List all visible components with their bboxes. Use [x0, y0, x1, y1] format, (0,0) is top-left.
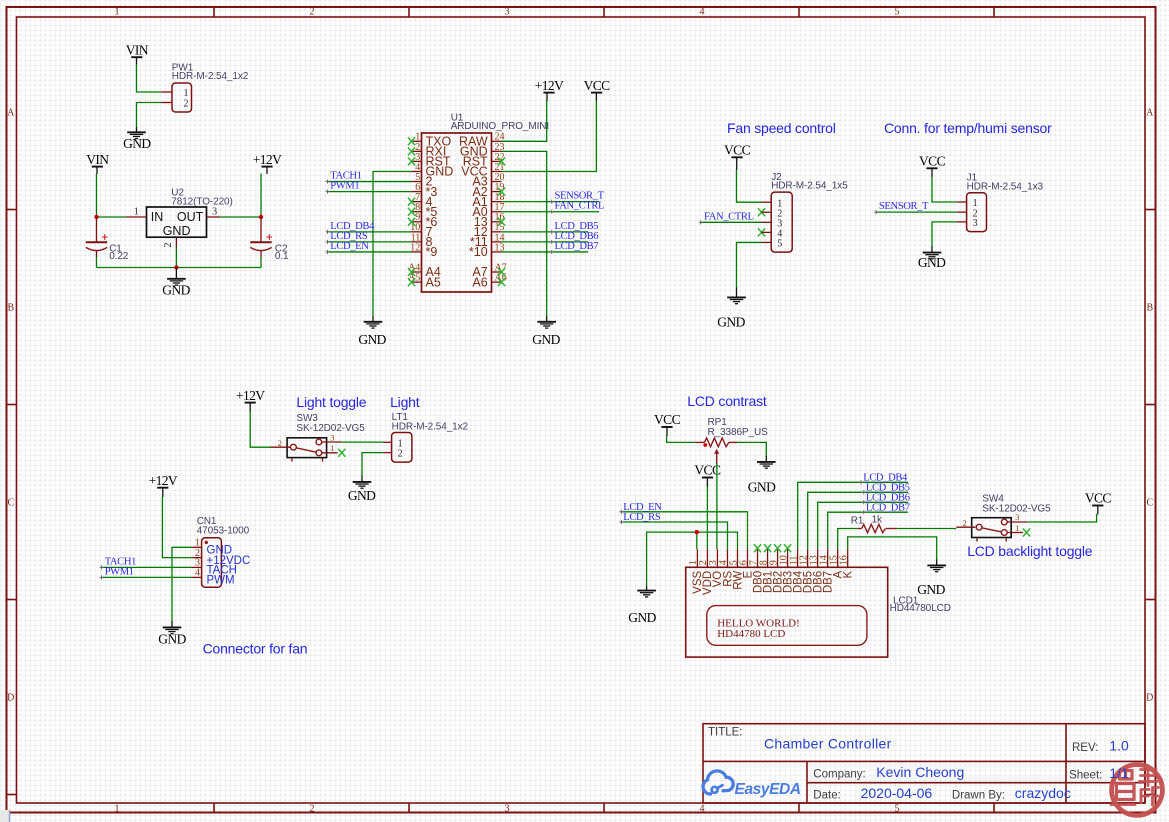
wire node A to U2 IN [97, 216, 127, 218]
wire VIN to node A [96, 167, 98, 174]
svg-text:4: 4 [700, 803, 705, 814]
svg-text:GND: GND [628, 610, 656, 625]
no-connect flags J2 pins 2 and 4 [758, 208, 765, 236]
svg-text:A5: A5 [426, 275, 441, 289]
svg-text:2: 2 [310, 803, 315, 814]
svg-text:SENSOR_T: SENSOR_T [879, 201, 929, 212]
no-connect flag SW3 pin 1 [338, 449, 345, 457]
svg-text:GND: GND [162, 283, 190, 298]
wire +12V to CN1 pin 2 [162, 488, 164, 497]
connector J2 [762, 172, 849, 252]
wire U1 GND4 to GND [373, 171, 412, 317]
wire net LCD_RS (U1) [328, 241, 412, 243]
svg-text:2: 2 [963, 518, 967, 528]
svg-text:Drawn By:: Drawn By: [952, 789, 1005, 801]
connector LT1 [383, 412, 468, 462]
power flag VIN (PW1) [126, 42, 149, 57]
mcu U1 ARDUINO_PRO_MINI [408, 112, 549, 292]
frame column labels top [115, 6, 900, 17]
svg-text:GND: GND [348, 488, 376, 503]
svg-text:GND: GND [123, 136, 151, 151]
svg-text:1.0: 1.0 [1109, 737, 1129, 753]
power flag VCC (U1 VCC) [584, 78, 611, 93]
power flag +12V (U2) [253, 152, 282, 167]
title block frame [703, 724, 1145, 803]
wire net LCD_DB7 (LCD) [828, 512, 908, 549]
svg-text:GND: GND [917, 582, 945, 597]
svg-text:3: 3 [505, 803, 510, 814]
frame row labels left [7, 108, 15, 704]
svg-text:Connector for fan: Connector for fan [203, 640, 308, 656]
power flag VCC (RP1) [654, 412, 681, 427]
wire R1 to SW4 pin 2 [897, 528, 957, 530]
power flag VCC (J2) [724, 143, 751, 158]
ground (RP1) [748, 462, 776, 495]
wire U2 OUT to node B [220, 216, 261, 218]
wire net LCD_DB6 (U1) [502, 241, 589, 243]
svg-text:PWM: PWM [207, 575, 235, 587]
svg-text:SK-12D02-VG5: SK-12D02-VG5 [982, 503, 1051, 514]
power flag VIN (U2) [86, 152, 109, 167]
ground (LT1) [348, 482, 376, 503]
wire +12V to node B [266, 167, 268, 174]
svg-text:R1: R1 [851, 516, 864, 527]
svg-text:2: 2 [163, 243, 174, 248]
svg-text:A: A [1146, 108, 1154, 119]
frame row labels right [1146, 108, 1154, 704]
junction node C [174, 265, 178, 269]
svg-text:Light toggle: Light toggle [296, 394, 366, 410]
svg-text:crazydoc: crazydoc [1015, 785, 1071, 801]
svg-text:PWM1: PWM1 [105, 566, 134, 577]
svg-text:+12V: +12V [236, 388, 265, 403]
no-connect flags U1 left pins [408, 137, 415, 286]
wire LCD K to GND [848, 537, 937, 560]
svg-text:Date:: Date: [813, 789, 841, 801]
svg-text:Sheet:: Sheet: [1069, 770, 1102, 782]
junction node B [259, 215, 263, 219]
wire RP1 wiper to LCD VO [716, 464, 718, 550]
svg-text:VIN: VIN [126, 42, 149, 57]
wire +12V to U1 RAW [546, 93, 548, 101]
svg-text:47053-1000: 47053-1000 [197, 525, 250, 536]
svg-text:+: + [266, 230, 273, 244]
svg-text:D: D [7, 693, 14, 704]
wire net FAN_CTRL (J2) [701, 221, 762, 223]
svg-text:*9: *9 [426, 245, 438, 259]
red approval stamp [1111, 765, 1162, 816]
svg-text:Company:: Company: [813, 768, 865, 780]
svg-text:LCD backlight toggle: LCD backlight toggle [967, 543, 1093, 559]
connector PW1 [161, 62, 248, 112]
svg-text:OUT: OUT [177, 210, 204, 224]
power flag +12V (SW3) [236, 388, 265, 403]
capacitor C2 [250, 217, 289, 262]
connector CN1 47053-1000 [192, 516, 251, 587]
power flag VCC (SW4) [1085, 491, 1112, 506]
wire ground rail [97, 267, 262, 269]
svg-text:K: K [843, 570, 855, 578]
svg-text:C: C [7, 498, 14, 509]
svg-text:VCC: VCC [919, 154, 946, 169]
svg-text:FAN_CTRL: FAN_CTRL [704, 211, 754, 222]
wire net SENSOR_T (J1) [876, 211, 957, 213]
wire U2 GND pin to node C [175, 248, 177, 268]
svg-text:1k: 1k [872, 514, 883, 525]
svg-text:1: 1 [115, 803, 120, 814]
svg-text:5: 5 [895, 6, 900, 17]
svg-text:VIN: VIN [86, 152, 109, 167]
svg-text:EasyEDA: EasyEDA [735, 781, 801, 798]
svg-text:1: 1 [330, 443, 334, 453]
capacitor C1 [86, 217, 129, 262]
svg-text:LCD_DB7: LCD_DB7 [555, 241, 599, 252]
svg-text:+12V: +12V [149, 473, 178, 488]
svg-text:1/1: 1/1 [1109, 765, 1129, 781]
svg-text:HDR-M-2.54_1x2: HDR-M-2.54_1x2 [172, 71, 249, 82]
svg-text:GND: GND [717, 314, 745, 329]
wire U1 GND23 to GND [502, 151, 547, 317]
connector J1 [957, 173, 1044, 232]
wire +12V to SW3 pin 2 [249, 403, 251, 412]
svg-text:1: 1 [134, 207, 139, 218]
svg-text:1: 1 [1015, 523, 1019, 533]
svg-text:GND: GND [158, 632, 186, 647]
regulator U2 7812(TO-220) [126, 188, 233, 248]
svg-text:+12V: +12V [535, 78, 564, 93]
wire net PWM1 (U1) [328, 191, 412, 193]
EasyEDA logo [703, 771, 801, 798]
wire net LCD_DB6 (LCD) [818, 502, 908, 549]
wire net LCD_DB5 (U1) [502, 231, 589, 233]
svg-text:HDR-M-2.54_1x2: HDR-M-2.54_1x2 [392, 422, 469, 433]
svg-text:2: 2 [184, 98, 189, 109]
power flag +12V (CN1) [149, 473, 178, 488]
svg-text:GND: GND [532, 332, 560, 347]
ground (LCD left) [628, 591, 656, 625]
power flag VCC (LCD VDD) [694, 463, 721, 478]
svg-text:SK-12D02-VG5: SK-12D02-VG5 [296, 423, 365, 434]
svg-text:2: 2 [278, 438, 282, 448]
wire net FAN_CTRL (U1) [502, 211, 600, 213]
svg-text:HDR-M-2.54_1x5: HDR-M-2.54_1x5 [771, 181, 848, 192]
svg-text:GND: GND [163, 224, 191, 238]
svg-text:ARDUINO_PRO_MINI: ARDUINO_PRO_MINI [451, 121, 549, 132]
wire net LCD_DB4 (U1) [328, 231, 412, 233]
svg-text:GND: GND [918, 255, 946, 270]
wire net TACH1 (U1) [328, 181, 412, 183]
svg-text:HDR-M-2.54_1x3: HDR-M-2.54_1x3 [967, 181, 1044, 192]
wire net PWM1 (CN1) [102, 576, 192, 578]
svg-text:12: 12 [410, 242, 420, 253]
wire PW1 pin 2 to GND [137, 103, 162, 128]
wire LCD A to R1 [838, 529, 858, 550]
wire C1 to ground rail [96, 257, 98, 268]
svg-text:LCD_RS: LCD_RS [623, 512, 661, 523]
svg-text:LCD contrast: LCD contrast [687, 393, 767, 409]
no-connect flags U1 right pins [498, 157, 505, 286]
svg-text:4: 4 [195, 568, 200, 579]
switch SW3 SK-12D02-VG5 [271, 413, 365, 462]
svg-text:VCC: VCC [584, 78, 611, 93]
svg-text:B: B [1146, 303, 1153, 314]
wire net TACH1 (CN1) [102, 566, 192, 568]
junction LCD VSS [695, 530, 699, 534]
frame column labels bottom [115, 803, 900, 814]
wire node C to GND [175, 268, 177, 279]
svg-text:7812(TO-220): 7812(TO-220) [171, 196, 232, 207]
wire SW3 pin 3 to LT1 pin 1 [342, 441, 384, 443]
svg-text:5: 5 [895, 803, 900, 814]
wire RP1 pin 3 to GND [737, 442, 766, 456]
svg-text:R_3386P_US: R_3386P_US [708, 427, 769, 438]
svg-text:D: D [1146, 693, 1153, 704]
ground (J1) [918, 253, 946, 271]
svg-text:4: 4 [700, 6, 705, 17]
ground (LCD K) [917, 565, 946, 597]
ground (PW1) [123, 132, 151, 151]
wire net LCD_EN (LCD) [621, 512, 747, 550]
svg-text:A6: A6 [472, 275, 487, 289]
wire VCC to J2 pin 1 [736, 157, 738, 170]
wire VCC to LCD VDD [706, 478, 708, 488]
wire net LCD_DB4 (LCD) [798, 482, 908, 549]
svg-text:LCD_EN: LCD_EN [330, 241, 369, 252]
ground (CN1) [158, 627, 186, 646]
wire VCC to RP1 pin 1 [666, 427, 668, 436]
svg-text:PWM1: PWM1 [330, 181, 359, 192]
svg-text:FAN_CTRL: FAN_CTRL [555, 201, 605, 212]
svg-text:Kevin Cheong: Kevin Cheong [876, 764, 964, 780]
svg-text:*10: *10 [469, 245, 488, 259]
svg-text:B: B [7, 303, 14, 314]
wire net LCD_DB7 (U1) [502, 251, 589, 253]
svg-text:0.1: 0.1 [275, 251, 289, 262]
svg-text:16: 16 [839, 555, 850, 565]
svg-text:5: 5 [777, 239, 782, 250]
wire LT1 pin 2 to GND [362, 453, 383, 477]
wire VIN to PW1 pin 1 [136, 57, 138, 64]
lcd module LCD1 HD44780LCD [686, 549, 951, 657]
svg-text:+12V: +12V [253, 152, 282, 167]
svg-text:1: 1 [184, 88, 189, 99]
wire net LCD_RS (LCD) [621, 522, 727, 549]
no-connect flag SW4 pin 1 [1023, 529, 1030, 537]
ground (J2) [717, 297, 746, 329]
svg-text:Chamber Controller: Chamber Controller [764, 736, 892, 752]
potentiometer RP1 R_3386P_US [695, 417, 768, 464]
svg-text:1: 1 [115, 6, 120, 17]
svg-text:2020-04-06: 2020-04-06 [861, 785, 933, 801]
svg-text:+: + [101, 230, 108, 244]
svg-text:3: 3 [330, 433, 334, 443]
svg-text:A: A [7, 108, 15, 119]
svg-text:TITLE:: TITLE: [708, 726, 743, 738]
wire J1 pin 3 to GND [932, 222, 957, 247]
svg-text:C: C [1146, 498, 1153, 509]
ground (U2) [162, 279, 190, 298]
svg-text:VCC: VCC [654, 412, 681, 427]
svg-text:Fan speed control: Fan speed control [727, 120, 836, 136]
wire net LCD_EN (U1) [328, 251, 412, 253]
svg-text:VCC: VCC [1085, 491, 1112, 506]
wire net SENSOR_T (U1) [502, 201, 600, 203]
svg-text:Light: Light [390, 394, 420, 410]
no-connect flags LCD DB0-DB3 [754, 544, 791, 552]
svg-text:VCC: VCC [724, 143, 751, 158]
svg-text:2: 2 [398, 449, 403, 460]
wire VCC to SW4 pin 3 [1097, 506, 1099, 515]
ground (U1 left) [358, 322, 386, 347]
svg-text:2: 2 [310, 6, 315, 17]
svg-text:0.22: 0.22 [109, 251, 129, 262]
svg-text:3: 3 [212, 207, 217, 218]
svg-text:Conn. for temp/humi sensor: Conn. for temp/humi sensor [884, 120, 1052, 136]
svg-text:HD44780 LCD: HD44780 LCD [717, 628, 785, 640]
power flag +12V (U1 RAW) [535, 78, 564, 93]
svg-text:IN: IN [151, 210, 164, 224]
wire net LCD_DB5 (LCD) [808, 492, 908, 549]
svg-text:HD44780LCD: HD44780LCD [890, 603, 951, 614]
scrollbar corner [0, 810, 10, 822]
power flag VCC (J1) [919, 154, 946, 169]
wire VCC to U1 pin 21 [595, 93, 597, 101]
switch SW4 SK-12D02-VG5 [956, 494, 1051, 542]
resistor R1 1k [851, 514, 897, 532]
wire CN1 pin 1 to GND [172, 547, 192, 621]
svg-text:3: 3 [505, 6, 510, 17]
wire C2 to ground rail [260, 257, 262, 268]
svg-text:LCD_DB7: LCD_DB7 [866, 502, 910, 513]
ground (U1 right) [532, 322, 560, 347]
svg-text:GND: GND [358, 332, 386, 347]
junction node A [94, 215, 98, 219]
svg-text:GND: GND [748, 480, 776, 495]
wire VCC to J1 pin 1 [931, 168, 933, 177]
junction RP1 left [703, 443, 707, 447]
svg-text:REV:: REV: [1072, 742, 1098, 754]
svg-text:3: 3 [973, 218, 978, 229]
wire J2 pin 5 to GND [737, 242, 762, 288]
wire LCD VSS / RW ground link [646, 586, 648, 591]
